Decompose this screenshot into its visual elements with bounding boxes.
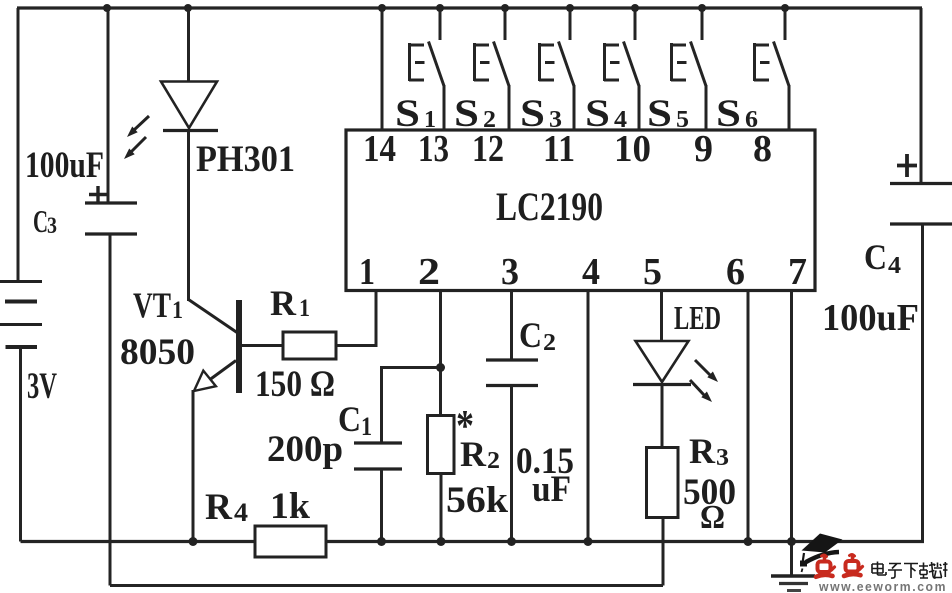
switch S5 [671, 8, 706, 131]
wire C2 bottom [510, 386, 513, 542]
switch S1 [409, 8, 444, 131]
diode LED [633, 341, 691, 385]
wire pin5 to LED [660, 291, 663, 341]
node dot R2 ground rail [437, 537, 446, 546]
label C2 [519, 315, 556, 356]
svg-text:150 Ω: 150 Ω [255, 364, 335, 405]
wire VT1 emitter down [192, 390, 195, 542]
svg-text:2: 2 [543, 330, 556, 356]
svg-text:VT: VT [133, 285, 171, 325]
capacitor C3 [85, 203, 137, 234]
label S4 [585, 92, 627, 135]
wire pin3 branch [510, 291, 513, 360]
svg-text:1: 1 [299, 295, 310, 322]
svg-text:uF: uF [532, 469, 571, 510]
resistor R3 [647, 448, 679, 518]
label 500 [683, 472, 736, 513]
wire LED cathode to R3 [661, 385, 664, 449]
capacitor C3 plus sign [89, 186, 107, 203]
svg-text:1: 1 [359, 251, 375, 293]
svg-text:S: S [585, 92, 610, 135]
label S6 [716, 92, 758, 135]
svg-text:100uF: 100uF [822, 297, 919, 339]
capacitor C4 plus sign [897, 154, 917, 177]
label S1 [395, 92, 436, 135]
capacitor C2 [486, 360, 538, 386]
node dot emitter/ground rail [189, 537, 198, 546]
svg-text:PH301: PH301 [196, 139, 295, 180]
wire pin14 to rail [381, 8, 384, 130]
svg-text:5: 5 [643, 251, 662, 293]
pin 13 label [418, 128, 449, 170]
svg-text:5: 5 [676, 107, 689, 133]
pin 11 label [543, 128, 575, 170]
wire pin6 branch [747, 291, 750, 542]
svg-text:4: 4 [614, 107, 627, 133]
pin 14 label [363, 128, 396, 170]
node dot S1 rail [436, 4, 444, 12]
wire R2 bottom [440, 474, 443, 542]
svg-text:7: 7 [788, 251, 807, 293]
LED emission arrows [690, 360, 718, 402]
wire C4 branch top [920, 8, 923, 183]
svg-text:14: 14 [363, 128, 396, 170]
node dot C2 ground rail [507, 537, 516, 546]
watermark text dianzi xiazaizhan [872, 562, 948, 579]
label S3 [520, 92, 562, 135]
node dot S3 rail [566, 4, 574, 12]
pin 7 label [788, 251, 807, 293]
svg-text:S: S [520, 92, 545, 135]
switch S4 [604, 8, 639, 131]
svg-text:R: R [460, 434, 487, 474]
label 100uF (C3) [25, 145, 104, 186]
svg-text:C: C [33, 203, 48, 239]
label R3 [689, 431, 729, 471]
label 56k [446, 480, 508, 521]
label 0.15 [516, 441, 574, 482]
svg-text:LC2190: LC2190 [496, 184, 603, 229]
svg-text:2: 2 [418, 251, 440, 293]
switch S3 [539, 8, 574, 131]
svg-text:4: 4 [888, 253, 901, 279]
svg-text:6: 6 [745, 107, 758, 133]
label R1 [270, 283, 310, 323]
wire PH301 cathode to VT1 collector [187, 131, 190, 302]
svg-text:1: 1 [361, 412, 372, 441]
label asterisk R2 [456, 401, 474, 450]
svg-text:3: 3 [47, 213, 57, 238]
svg-text:100uF: 100uF [25, 145, 104, 186]
svg-text:11: 11 [543, 128, 575, 170]
svg-text:LED: LED [674, 300, 721, 337]
label 200p [267, 429, 343, 470]
svg-text:3V: 3V [27, 366, 57, 407]
label LC2190 [496, 184, 603, 229]
svg-text:3: 3 [716, 445, 729, 471]
pin 1 label [359, 251, 375, 293]
label uF [532, 469, 571, 510]
label R4 [205, 487, 248, 528]
svg-text:4: 4 [582, 251, 600, 293]
pin 12 label [472, 128, 504, 170]
transistor VT1 8050 [189, 300, 284, 394]
wire pin4 branch [587, 291, 590, 542]
svg-text:R: R [689, 431, 716, 471]
node dot pin14 rail [378, 4, 386, 12]
svg-text:1: 1 [172, 297, 183, 324]
node dot pin7 ground rail [787, 537, 796, 546]
label S5 [647, 92, 689, 135]
PH301 emission arrows [124, 116, 149, 159]
watermark red bug 1 [816, 555, 835, 577]
IC U1 LC2190 [346, 130, 815, 291]
svg-text:C: C [519, 315, 542, 355]
watermark url www.eeworm.com [818, 580, 947, 593]
svg-text:10: 10 [614, 128, 651, 170]
label VT1 [133, 285, 183, 325]
resistor R4 [255, 526, 326, 557]
pin 9 label [694, 128, 713, 170]
wire pin7 branch [790, 291, 793, 575]
svg-text:R: R [270, 283, 297, 323]
label S2 [454, 92, 496, 135]
diode PH301 (IR emitter) [161, 82, 218, 131]
svg-text:6: 6 [726, 251, 745, 293]
svg-text:8050: 8050 [120, 332, 195, 373]
node dot pin6 ground rail [744, 537, 753, 546]
label ohm [700, 499, 725, 536]
node dot pin4 ground rail [584, 537, 593, 546]
capacitor C4 [890, 184, 952, 225]
pin 3 label [501, 251, 519, 293]
wire left branch from rail to battery [17, 8, 20, 281]
pin 10 label [614, 128, 651, 170]
label 1k [270, 486, 310, 527]
svg-text:1: 1 [424, 107, 436, 133]
wire top rail V+ [17, 6, 922, 9]
label 8050 [120, 332, 195, 373]
wire C3 bottom down to lowest rail [109, 234, 112, 586]
svg-text:S: S [454, 92, 479, 135]
svg-text:1k: 1k [270, 486, 310, 527]
resistor R1 [283, 332, 336, 359]
wire C4 bottom to ground rail [921, 224, 924, 542]
capacitor C1 [354, 443, 402, 469]
svg-text:200p: 200p [267, 429, 343, 470]
battery GB 3V [0, 282, 42, 348]
label 100uF (C4) [822, 297, 919, 339]
pin 8 label [753, 128, 772, 170]
svg-text:C: C [864, 237, 887, 277]
svg-text:13: 13 [418, 128, 449, 170]
svg-text:www.eeworm.com: www.eeworm.com [818, 580, 947, 593]
switch S6 [754, 8, 789, 131]
node dot S4 rail [631, 4, 639, 12]
wire pin2 branch [439, 291, 442, 416]
wire R3 bottom to lowest rail [662, 518, 665, 586]
wire C1 bottom [380, 469, 383, 542]
label C1 [338, 399, 372, 441]
watermark red bug 2 [844, 555, 863, 576]
wire C1 link horizontal [382, 368, 441, 444]
wire bottom ground rail [21, 540, 925, 543]
node dot S2 rail [501, 4, 509, 12]
pin 6 label [726, 251, 745, 293]
label C3 [33, 203, 57, 239]
svg-text:S: S [716, 92, 741, 135]
svg-text:S: S [647, 92, 672, 135]
pin 5 label [643, 251, 662, 293]
svg-text:R: R [205, 487, 233, 528]
node dot S6 rail [781, 4, 789, 12]
node dot C3 top [103, 4, 111, 12]
svg-text:9: 9 [694, 128, 713, 170]
svg-text:4: 4 [234, 498, 248, 527]
label LED [674, 300, 721, 337]
label 150 ohm [255, 364, 335, 405]
label C4 [864, 237, 901, 279]
svg-text:S: S [395, 92, 420, 135]
ground symbol [771, 576, 815, 591]
svg-text:3: 3 [549, 107, 562, 133]
svg-text:Ω: Ω [700, 499, 725, 536]
wire C3 branch upper [107, 8, 110, 202]
label PH301 [196, 139, 295, 180]
svg-text:3: 3 [501, 251, 519, 293]
node dot C1 ground rail [377, 537, 386, 546]
svg-text:2: 2 [487, 448, 500, 474]
wire lowest rail (C3 to R3 bottom) [110, 584, 663, 587]
wire R1 to pin1 [336, 291, 376, 346]
pin 2 label [418, 251, 440, 293]
svg-text:8: 8 [753, 128, 772, 170]
wire PH301 anode [187, 8, 190, 82]
pin 4 label [582, 251, 600, 293]
node dot pin2/C1 junction [436, 363, 445, 372]
node dot S5 rail [698, 4, 706, 12]
svg-text:2: 2 [483, 107, 496, 133]
watermark graduation cap [800, 534, 843, 573]
label R2 [460, 434, 500, 474]
svg-text:56k: 56k [446, 480, 508, 521]
wire battery negative down to ground rail [19, 347, 22, 542]
label 3V [27, 366, 57, 407]
resistor R2 [428, 416, 455, 474]
node dot PH301 top [184, 4, 192, 12]
switch S2 [474, 8, 509, 131]
